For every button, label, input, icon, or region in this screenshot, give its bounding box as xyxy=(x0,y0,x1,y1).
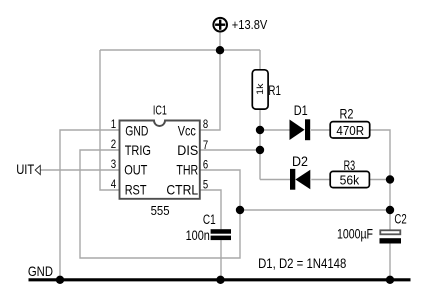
svg-text:UIT: UIT xyxy=(16,161,34,177)
node: ground left junction xyxy=(56,276,64,284)
wire to D2 cathode xyxy=(260,179,291,181)
wire D1 to R2 xyxy=(311,129,330,131)
wire R1 top xyxy=(259,50,261,70)
svg-text:D2: D2 xyxy=(292,154,308,169)
wire RST riser xyxy=(100,50,119,190)
svg-text:3: 3 xyxy=(111,157,117,171)
svg-text:470R: 470R xyxy=(336,123,364,138)
capacitor C2 (electrolytic) xyxy=(380,230,402,243)
ground rail xyxy=(29,278,411,281)
svg-text:R1: R1 xyxy=(268,83,281,98)
wire CTRL to C1 xyxy=(200,190,221,229)
svg-text:6: 6 xyxy=(203,158,209,172)
node: power rail junction xyxy=(216,46,224,54)
svg-text:C1: C1 xyxy=(203,212,216,227)
node: ground C1 junction xyxy=(216,276,224,284)
svg-text:1000µF: 1000µF xyxy=(337,227,373,242)
capacitor C1 xyxy=(211,229,231,240)
node: C2 top junction xyxy=(386,206,394,214)
wire GND pin 1 xyxy=(60,130,119,281)
svg-text:8: 8 xyxy=(203,117,209,131)
svg-text:D1, D2 = 1N4148: D1, D2 = 1N4148 xyxy=(258,255,346,271)
wire TRIG loop xyxy=(80,150,240,258)
svg-text:100n: 100n xyxy=(186,228,210,243)
resistor R3 xyxy=(330,171,369,187)
op-amp U1 : IC1 555 timer body xyxy=(120,121,200,199)
UIT output arrow xyxy=(35,165,40,174)
svg-text:TRIG: TRIG xyxy=(125,142,151,158)
svg-text:R2: R2 xyxy=(340,106,354,121)
resistor R2 xyxy=(330,122,370,138)
svg-text:5: 5 xyxy=(203,177,209,191)
wire THR stub down xyxy=(200,170,240,210)
wire top rail xyxy=(100,49,260,51)
power symbol +13.8V xyxy=(213,17,267,32)
svg-text:Vcc: Vcc xyxy=(178,123,196,139)
wire R3 to right riser xyxy=(370,179,391,181)
svg-text:1: 1 xyxy=(111,117,117,131)
wire DIS stub xyxy=(200,149,260,151)
node: R3 right junction xyxy=(386,175,394,183)
wire R2 to right riser xyxy=(370,130,390,230)
svg-text:7: 7 xyxy=(203,138,209,152)
svg-text:56k: 56k xyxy=(340,172,360,187)
svg-text:R3: R3 xyxy=(344,158,356,173)
svg-text:GND: GND xyxy=(125,123,148,139)
svg-text:D1: D1 xyxy=(294,103,308,118)
node: DIS junction xyxy=(256,146,264,154)
svg-text:4: 4 xyxy=(111,177,117,191)
svg-text:C2: C2 xyxy=(394,211,406,226)
node: THR/TRIG junction xyxy=(236,206,244,214)
wire power drop to pin 8 xyxy=(200,33,220,131)
svg-text:GND: GND xyxy=(28,263,53,279)
wire to D1 anode xyxy=(260,129,290,131)
svg-text:IC1: IC1 xyxy=(153,102,167,117)
wire R1 bottom vertical xyxy=(259,109,261,180)
wire THR node horizontal xyxy=(240,209,390,211)
svg-text:555: 555 xyxy=(151,203,170,218)
resistor R1 xyxy=(252,70,268,109)
svg-text:DIS: DIS xyxy=(177,142,198,158)
svg-text:2: 2 xyxy=(111,137,117,151)
svg-text:OUT: OUT xyxy=(124,162,148,178)
svg-text:1k: 1k xyxy=(255,83,265,95)
diode D2 xyxy=(290,169,310,190)
svg-text:RST: RST xyxy=(125,182,147,198)
wire C1 to ground xyxy=(220,240,222,280)
diode D1 xyxy=(290,119,311,140)
wire OUT to UIT xyxy=(40,169,119,171)
wire D2 to R3 xyxy=(311,179,330,181)
svg-text:CTRL: CTRL xyxy=(166,182,198,198)
wire C2 to ground xyxy=(389,244,391,281)
node: ground C2 junction xyxy=(386,276,394,284)
svg-text:THR: THR xyxy=(176,162,198,178)
svg-text:+13.8V: +13.8V xyxy=(232,17,268,32)
node: D1 anode junction xyxy=(256,126,264,134)
